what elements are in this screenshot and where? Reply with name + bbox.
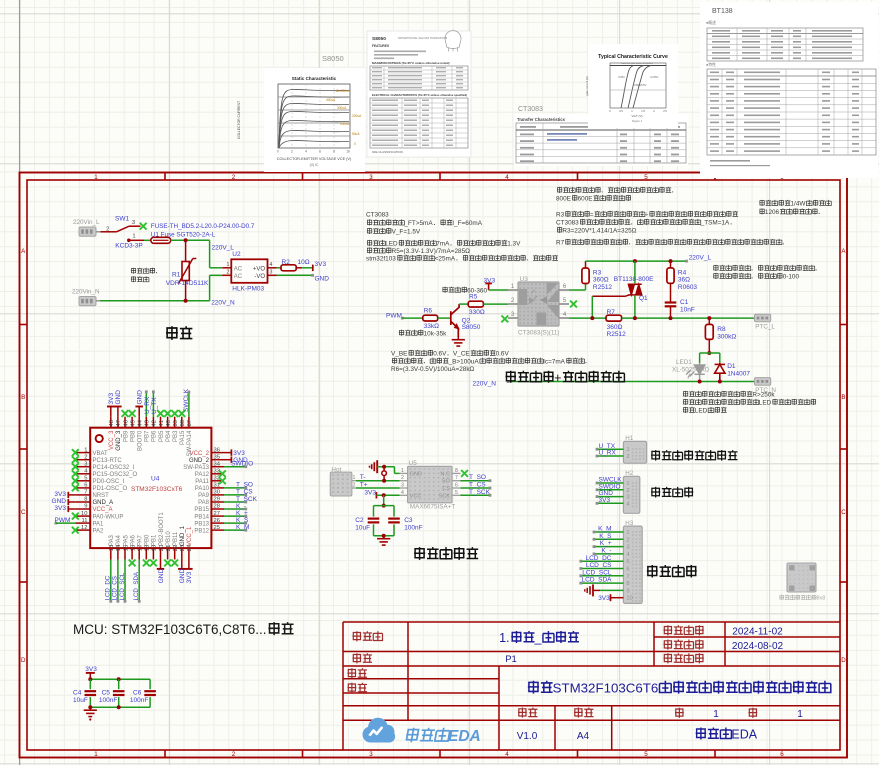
svg-text:4: 4	[305, 150, 307, 154]
MCU pin 30 PA9	[211, 494, 224, 496]
svg-text:360Ω: 360Ω	[607, 324, 623, 331]
power flag 3V3 at VCC_A pin9	[67, 506, 69, 512]
svg-text:6: 6	[84, 483, 87, 489]
net label K_- wire at H3	[594, 553, 623, 555]
svg-text:10Ω: 10Ω	[298, 259, 310, 266]
MCU pin 20 PB2-BOOT1	[160, 548, 162, 559]
no-connect X left pin 2	[72, 456, 79, 463]
svg-text:S8050: S8050	[372, 36, 386, 42]
svg-text:29: 29	[214, 497, 220, 503]
svg-text:3V3: 3V3	[54, 505, 66, 512]
svg-text:U_RX: U_RX	[144, 396, 151, 414]
power flag 3V3 at R2	[312, 265, 314, 272]
diode D1 1N4007	[715, 363, 725, 382]
svg-text:LCD_CS: LCD_CS	[586, 562, 612, 569]
svg-text:HLK-PM03: HLK-PM03	[232, 286, 264, 293]
svg-text:BT1138-800E: BT1138-800E	[614, 276, 654, 283]
net label SWCLK wire at H2	[597, 482, 623, 484]
svg-text:AC: AC	[234, 266, 243, 272]
svg-text:220Vin_L: 220Vin_L	[73, 219, 100, 226]
resistor R8 300k	[708, 318, 710, 324]
svg-text:37: 37	[187, 420, 193, 426]
svg-text:2.5: 2.5	[663, 109, 667, 113]
svg-text:2: 2	[227, 269, 230, 275]
svg-text:(V) IC: (V) IC	[310, 163, 319, 167]
title block label: drawn by	[347, 668, 356, 678]
svg-text:hFE CLASSIFICATION: hFE CLASSIFICATION	[372, 150, 403, 154]
svg-text:T_CS: T_CS	[469, 482, 486, 489]
svg-text:1: 1	[713, 709, 719, 720]
S8050 datasheet page image	[367, 31, 471, 157]
section title: reserved serial port	[651, 450, 660, 461]
svg-text:0-100: 0-100	[783, 274, 800, 281]
svg-text:t=25C: t=25C	[618, 75, 625, 79]
svg-text:U_RX: U_RX	[599, 450, 617, 457]
svg-text:÷: ÷	[645, 212, 649, 219]
title block label: page	[352, 653, 361, 663]
MCU pin 34 SW-PA13	[211, 466, 224, 468]
svg-text:K_S: K_S	[236, 517, 249, 524]
svg-text:NRST: NRST	[93, 493, 110, 499]
svg-text:3V3: 3V3	[85, 666, 97, 673]
svg-text:100nF: 100nF	[130, 697, 148, 704]
svg-text:PA1: PA1	[93, 521, 105, 527]
svg-text:C4: C4	[73, 690, 82, 697]
net label U_RX wire at PB7 pin43	[145, 392, 147, 417]
svg-text:T-: T-	[360, 474, 366, 481]
svg-text:4: 4	[505, 751, 509, 758]
svg-text:9: 9	[626, 588, 629, 594]
wire switch to fuse	[144, 239, 151, 241]
net label U_TX wire at PB6 pin42	[152, 392, 154, 417]
svg-text:R3: R3	[593, 269, 602, 276]
MCU pin 33 PA12	[211, 473, 224, 475]
svg-text:PD1-OSC_O: PD1-OSC_O	[93, 486, 128, 492]
MCU pin 35 GND_2	[211, 459, 224, 461]
net label K_M wire	[224, 529, 246, 531]
svg-text:K_-: K_-	[601, 548, 611, 555]
MCU pin 9 VCC_A	[75, 508, 90, 510]
title block frame	[343, 622, 840, 750]
svg-text:PB5: PB5	[159, 430, 165, 442]
svg-text:PB12: PB12	[194, 528, 209, 534]
svg-text:2: 2	[401, 475, 404, 481]
svg-text:R3=220V*1.414/1A=325Ω: R3=220V*1.414/1A=325Ω	[562, 228, 636, 235]
MCU pin 8 GND_A	[75, 501, 90, 503]
svg-text:SW-PA14: SW-PA14	[187, 430, 193, 456]
svg-text:R5=(3.3V-1.3V)/7mA=285Ω: R5=(3.3V-1.3V)/7mA=285Ω	[392, 248, 471, 255]
svg-text:T_SCK: T_SCK	[236, 496, 258, 503]
MCU pin 24 VCC_1	[188, 548, 190, 559]
svg-text:330Ω: 330Ω	[469, 309, 485, 316]
svg-text:EDA: EDA	[448, 728, 481, 745]
terminal PTC_N	[755, 378, 771, 386]
svg-text:GND: GND	[115, 390, 122, 405]
terminal PTC_L	[755, 314, 771, 322]
svg-text:3: 3	[270, 269, 273, 275]
svg-text:48: 48	[109, 420, 115, 426]
power flag 3V3 at NRST pin7	[67, 492, 69, 498]
svg-text:-VO: -VO	[254, 274, 265, 280]
svg-text:3: 3	[401, 483, 404, 489]
svg-text:COLLECTOR CURRENT: COLLECTOR CURRENT	[237, 101, 241, 139]
svg-text:28: 28	[214, 504, 220, 510]
svg-text:U4: U4	[151, 475, 160, 482]
svg-text:PB7: PB7	[145, 430, 151, 442]
svg-text:2: 2	[232, 751, 236, 758]
triac gate wire	[592, 295, 625, 297]
title block label: material code	[663, 653, 672, 663]
svg-text:Transfer Characteristics: Transfer Characteristics	[517, 117, 566, 122]
svg-text:220V_N: 220V_N	[211, 300, 235, 307]
svg-text:V_F=1.5V: V_F=1.5V	[392, 229, 421, 236]
svg-text:VCC_3: VCC_3	[109, 430, 115, 450]
svg-text:7: 7	[84, 490, 87, 496]
svg-text:BT138: BT138	[712, 8, 733, 15]
no-connect X left pin 4	[72, 470, 79, 477]
MCU pin 2 PC13-RTC	[75, 459, 90, 461]
svg-text:PA2: PA2	[93, 528, 105, 534]
svg-text:3V3: 3V3	[364, 489, 376, 496]
no-connect X top pins 41 40 39 38	[157, 410, 164, 417]
svg-text:FUSE-TH_BD5.2-L20.0-P24.00-D0.: FUSE-TH_BD5.2-L20.0-P24.00-D0.7	[151, 223, 255, 230]
svg-text:GND_2: GND_2	[189, 458, 210, 464]
svg-text:PB8: PB8	[130, 430, 136, 442]
svg-text:1: 1	[84, 447, 87, 453]
net label LCD_SCL wire	[124, 560, 126, 602]
capacitor C4 10uF	[85, 690, 97, 692]
wire R6 to Q2 base	[438, 317, 450, 319]
svg-text:+: +	[554, 371, 561, 385]
svg-text:PB9: PB9	[123, 430, 129, 442]
svg-text:300kΩ: 300kΩ	[717, 334, 736, 341]
svg-text:PC14-OSC32_I: PC14-OSC32_I	[93, 465, 135, 471]
wire U2 -VO to GND label	[277, 274, 313, 276]
junction snubber branch	[669, 259, 673, 263]
svg-text:PC13-RTC: PC13-RTC	[93, 458, 123, 464]
MCU pin 12 PA2	[75, 529, 90, 531]
svg-text:P1: P1	[505, 654, 517, 665]
net label T_SO wire	[224, 487, 246, 489]
svg-text:220Vin_N: 220Vin_N	[72, 289, 100, 296]
MCU pin 40 PB4	[167, 417, 169, 428]
svg-text:U2: U2	[232, 251, 241, 258]
svg-text:50uA: 50uA	[352, 132, 360, 136]
svg-text:3: 3	[84, 461, 87, 467]
svg-text:6: 6	[455, 483, 458, 489]
wire R2 to 3V3	[302, 267, 313, 269]
svg-text:10uF: 10uF	[355, 525, 370, 532]
svg-text:PB1: PB1	[152, 534, 158, 546]
svg-text:EDA: EDA	[731, 728, 757, 742]
svg-text:GND: GND	[179, 569, 186, 584]
svg-text:220V_N: 220V_N	[473, 380, 497, 387]
net label U_TX wire	[597, 448, 623, 450]
section title: panel connection	[647, 565, 658, 577]
capacitor C5 100nF	[113, 690, 125, 692]
svg-text:800E: 800E	[556, 196, 571, 203]
section title: power	[166, 326, 178, 340]
svg-text:LED1: LED1	[676, 359, 692, 366]
title block label: create date	[663, 640, 672, 650]
svg-text:PA10: PA10	[195, 486, 210, 492]
net label PWM wire at PA1 pin11	[55, 522, 58, 525]
svg-text:PD0-OSC_I: PD0-OSC_I	[93, 479, 125, 485]
svg-text:PA9: PA9	[198, 493, 210, 499]
svg-text:220V_L: 220V_L	[212, 245, 235, 252]
MCU pin 46 PB9	[124, 417, 126, 428]
svg-text:PWM: PWM	[386, 312, 402, 319]
no-connect X left pin 1	[72, 449, 79, 456]
svg-text:T+: T+	[360, 482, 368, 489]
svg-text:0.6V: 0.6V	[433, 351, 447, 358]
no-connect X at U5 pin8	[461, 470, 468, 477]
no-connect X left pin 6	[72, 485, 79, 492]
svg-text:Figure 1: Figure 1	[632, 119, 643, 123]
wire rail down to triac Q1	[634, 261, 636, 283]
MCU pin 17 PA7	[138, 548, 140, 559]
svg-text:0.6V: 0.6V	[496, 351, 510, 358]
svg-text:SWDIO: SWDIO	[231, 461, 253, 468]
svg-text:1N4007: 1N4007	[727, 370, 750, 377]
no-connect X bottom pins	[129, 560, 136, 567]
svg-text:PB14: PB14	[194, 514, 209, 520]
no-connect X at U3 pin3	[501, 316, 508, 323]
svg-text:3V3: 3V3	[54, 491, 66, 498]
wire 220Vin_N to U2 pin2	[96, 300, 101, 302]
svg-text:COLLECTOR-EMITTER VOLTAGE VCE: COLLECTOR-EMITTER VOLTAGE VCE (V)	[277, 157, 352, 161]
svg-text:SWCLK: SWCLK	[183, 388, 190, 412]
svg-text:LCD_SCL: LCD_SCL	[582, 569, 612, 576]
svg-text:1: 1	[797, 709, 803, 720]
svg-text:T_SCK: T_SCK	[469, 489, 491, 496]
svg-text:VCC_1: VCC_1	[187, 526, 193, 546]
svg-text:1: 1	[626, 447, 629, 453]
svg-text:5: 5	[644, 751, 648, 758]
no-connect X right pins 33 32	[219, 470, 226, 477]
svg-text:KCD3-3P: KCD3-3P	[115, 242, 142, 249]
svg-text:PTC_N: PTC_N	[755, 387, 776, 394]
svg-text:PTC_L: PTC_L	[755, 324, 775, 331]
MCU pin 6 PD1-OSC_O	[75, 487, 90, 489]
svg-text:0: 0	[354, 142, 356, 146]
svg-text:STM32F103CxT6: STM32F103CxT6	[131, 486, 183, 493]
section title: thermocouple sampling	[414, 547, 425, 560]
MCU pin 27 PB14	[211, 515, 224, 517]
resistor R4 36 R0603 snubber	[670, 261, 672, 268]
svg-text:D1: D1	[727, 363, 736, 370]
svg-text:VDR-14D511K: VDR-14D511K	[166, 280, 209, 287]
ground below C4	[89, 707, 91, 710]
svg-text:GND_3: GND_3	[116, 430, 122, 451]
net label LCD_SCL wire at H3	[581, 575, 624, 577]
svg-text:10: 10	[346, 150, 350, 154]
decoupling bus wires C4-C6	[90, 678, 150, 680]
svg-text:H2: H2	[625, 470, 633, 477]
MCU pin 28 PB15	[211, 508, 224, 510]
svg-text:8: 8	[333, 150, 335, 154]
svg-text:Q1: Q1	[639, 295, 648, 302]
svg-text:4: 4	[270, 262, 273, 268]
svg-text:3: 3	[369, 174, 373, 181]
svg-text:H1: H1	[625, 435, 633, 442]
svg-text:5: 5	[626, 559, 629, 565]
wire from 220Vin_L to SW1	[96, 231, 101, 233]
MCU pin 7 NRST	[75, 494, 90, 496]
annotation RC snubber note	[713, 265, 718, 271]
svg-text:K_S: K_S	[599, 533, 612, 540]
svg-text:1.5: 1.5	[641, 109, 645, 113]
svg-text:LCD_SCL: LCD_SCL	[119, 572, 126, 600]
svg-text:PA4: PA4	[116, 534, 122, 546]
svg-text:SW1: SW1	[115, 215, 129, 222]
svg-text:8: 8	[455, 468, 458, 474]
MCU pin 32 PA11	[211, 480, 224, 482]
svg-text:K_M: K_M	[236, 524, 249, 531]
svg-text:100nF: 100nF	[404, 525, 422, 532]
svg-text:PA7: PA7	[138, 534, 144, 546]
title block label: schematic	[352, 631, 361, 641]
net port circle to T-	[382, 465, 386, 469]
svg-text:2: 2	[106, 227, 109, 233]
220V_L power rail wire	[586, 260, 687, 262]
wire 220V_N to PTC_N	[508, 381, 755, 383]
annotation AC control paragraph	[557, 187, 562, 193]
svg-text:36Ω: 36Ω	[678, 277, 690, 284]
JLC EDA logo	[362, 718, 395, 743]
S8050 static-characteristic chart image	[264, 68, 365, 172]
title block labels: version size page	[518, 708, 527, 718]
svg-text:1: 1	[626, 530, 629, 536]
header H3 panel connector	[623, 526, 642, 603]
svg-text:PB4: PB4	[166, 430, 172, 442]
svg-text:100uA: 100uA	[340, 122, 350, 126]
svg-text:38: 38	[180, 420, 186, 426]
svg-text:PB15: PB15	[194, 507, 209, 513]
wire U3 pin4 to gate node	[569, 317, 606, 319]
svg-text:1: 1	[94, 174, 98, 181]
svg-text:R6=(3.3V-0.5V)/100uA=28kΩ: R6=(3.3V-0.5V)/100uA=28kΩ	[391, 366, 475, 373]
svg-text:6: 6	[626, 567, 629, 573]
wire down to U2 pin1	[209, 240, 211, 267]
svg-text:47: 47	[116, 420, 122, 426]
svg-text:1: 1	[132, 233, 135, 239]
svg-text:2: 2	[232, 174, 236, 181]
MCU pin 44 BOOT0	[138, 417, 140, 428]
net label LCD_CS wire	[117, 560, 119, 602]
svg-text:R7: R7	[556, 240, 565, 247]
MCU pin 23 GND_1	[181, 548, 183, 559]
svg-text:LCD_SDA: LCD_SDA	[133, 571, 140, 600]
MCU pin 31 PA10	[211, 487, 224, 489]
svg-text:S8050: S8050	[322, 54, 344, 63]
svg-text:_TSM=1A: _TSM=1A	[700, 220, 730, 227]
ground below C2 C3	[383, 536, 385, 539]
svg-text:U_TX: U_TX	[151, 397, 158, 414]
MCU pin 47 GND_3	[117, 417, 119, 428]
junction at varistor top	[184, 238, 188, 242]
svg-text:9: 9	[84, 504, 87, 510]
MCU pin 37 SW-PA14	[188, 417, 190, 428]
MCU pin 19 PB1	[152, 548, 154, 559]
svg-text:_B>100uA: _B>100uA	[448, 358, 480, 365]
svg-text:=: =	[590, 212, 594, 219]
capacitor C6 100nF	[144, 690, 156, 692]
svg-text:STM32F103C6T6: STM32F103C6T6	[553, 681, 659, 696]
svg-text:PB6: PB6	[152, 430, 158, 442]
svg-text:●概述: ●概述	[706, 20, 716, 25]
wire U2 +VO to R2	[277, 267, 282, 269]
net flag GND at PB2-BOOT1 pin20	[160, 560, 162, 569]
svg-text:30: 30	[214, 490, 220, 496]
svg-text:6: 6	[780, 751, 784, 758]
MCU pin 21 PB10	[167, 548, 169, 559]
svg-text:43: 43	[145, 420, 151, 426]
svg-text:1.: 1.	[499, 631, 509, 645]
svg-text:C: C	[21, 509, 26, 516]
capacitor C2 10uF	[368, 517, 380, 519]
net label K_+ wire	[224, 515, 246, 517]
section title: zero-crossing opto + triac	[505, 371, 516, 383]
wire R5 to U3 pin2	[483, 303, 508, 305]
svg-text:5: 5	[455, 490, 458, 496]
annotation R5 range	[442, 287, 447, 293]
svg-text:XL-5025URD: XL-5025URD	[672, 367, 710, 374]
wire gnd to U5 pin1	[377, 466, 394, 468]
svg-text:VBAT: VBAT	[93, 451, 109, 457]
svg-text:CT3083: CT3083	[556, 220, 579, 227]
wire Q2 collector to R5	[459, 303, 468, 305]
header H1 output serial	[623, 441, 646, 463]
net label K_+ wire at H3	[594, 546, 623, 548]
svg-text:PB10: PB10	[166, 531, 172, 546]
svg-text:2: 2	[291, 150, 293, 154]
svg-text:R1: R1	[172, 272, 181, 279]
MCU U4 STM32F103CxT6 body	[90, 428, 211, 548]
svg-text:PA0-WKUP: PA0-WKUP	[93, 514, 124, 520]
net flag GND at GND_3 pin47	[117, 407, 119, 417]
svg-text:10k-35k: 10k-35k	[424, 330, 448, 337]
svg-text:1: 1	[353, 475, 356, 481]
MCU pin 11 PA1	[75, 522, 90, 524]
MCU pin 36 VCC_2	[211, 452, 224, 454]
svg-text:11: 11	[81, 518, 87, 524]
annotation LED drive paragraph	[367, 240, 372, 246]
power flag 3V3 at VCC_3 pin48	[110, 407, 112, 417]
svg-text:V1.0: V1.0	[517, 731, 538, 742]
MCU pin 4 PC15-OSC32_O	[75, 473, 90, 475]
svg-text:600E: 600E	[578, 196, 593, 203]
svg-text:8x8: 8x8	[817, 596, 826, 602]
svg-text:300uA: 300uA	[337, 106, 347, 110]
svg-text:BOOT0: BOOT0	[138, 430, 144, 451]
wire PWM to R6	[402, 317, 423, 319]
svg-text:PA5: PA5	[123, 534, 129, 546]
no-connect X left pin 3	[72, 463, 79, 470]
svg-text:GND: GND	[315, 276, 330, 283]
no-connect X left pin 12	[72, 527, 79, 534]
svg-text:360Ω: 360Ω	[593, 277, 609, 284]
svg-text:H3: H3	[625, 520, 633, 527]
svg-text:D: D	[21, 657, 26, 664]
svg-text:46: 46	[123, 420, 129, 426]
net flag GND at GND_A pin8	[67, 499, 69, 505]
svg-text:LCD_DC: LCD_DC	[105, 575, 112, 600]
svg-text:8: 8	[84, 497, 87, 503]
net label 3V3 wire at H2	[597, 502, 623, 504]
svg-text:27: 27	[214, 511, 220, 517]
svg-text:PB0: PB0	[145, 534, 151, 546]
